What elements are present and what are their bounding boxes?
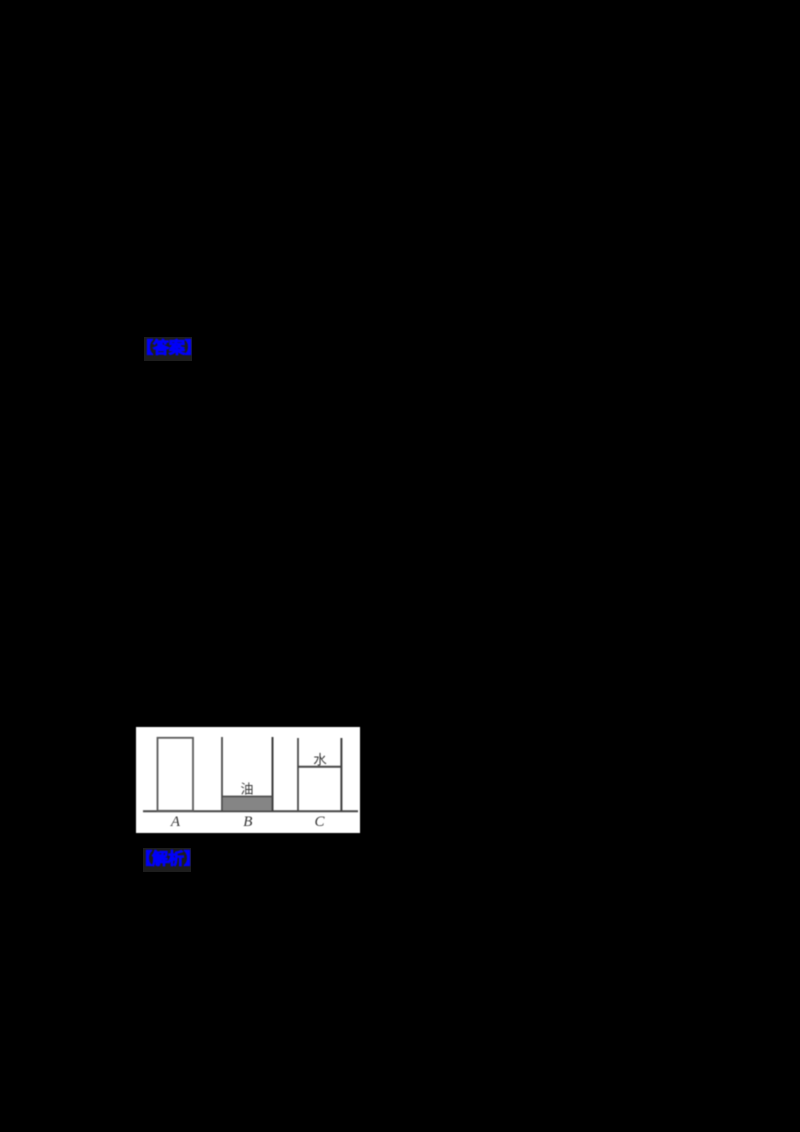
svg-text:B: B — [243, 814, 252, 830]
svg-text:油: 油 — [240, 782, 253, 797]
svg-text:A: A — [170, 814, 181, 830]
svg-text:水: 水 — [313, 753, 327, 768]
svg-text:C: C — [314, 814, 325, 830]
